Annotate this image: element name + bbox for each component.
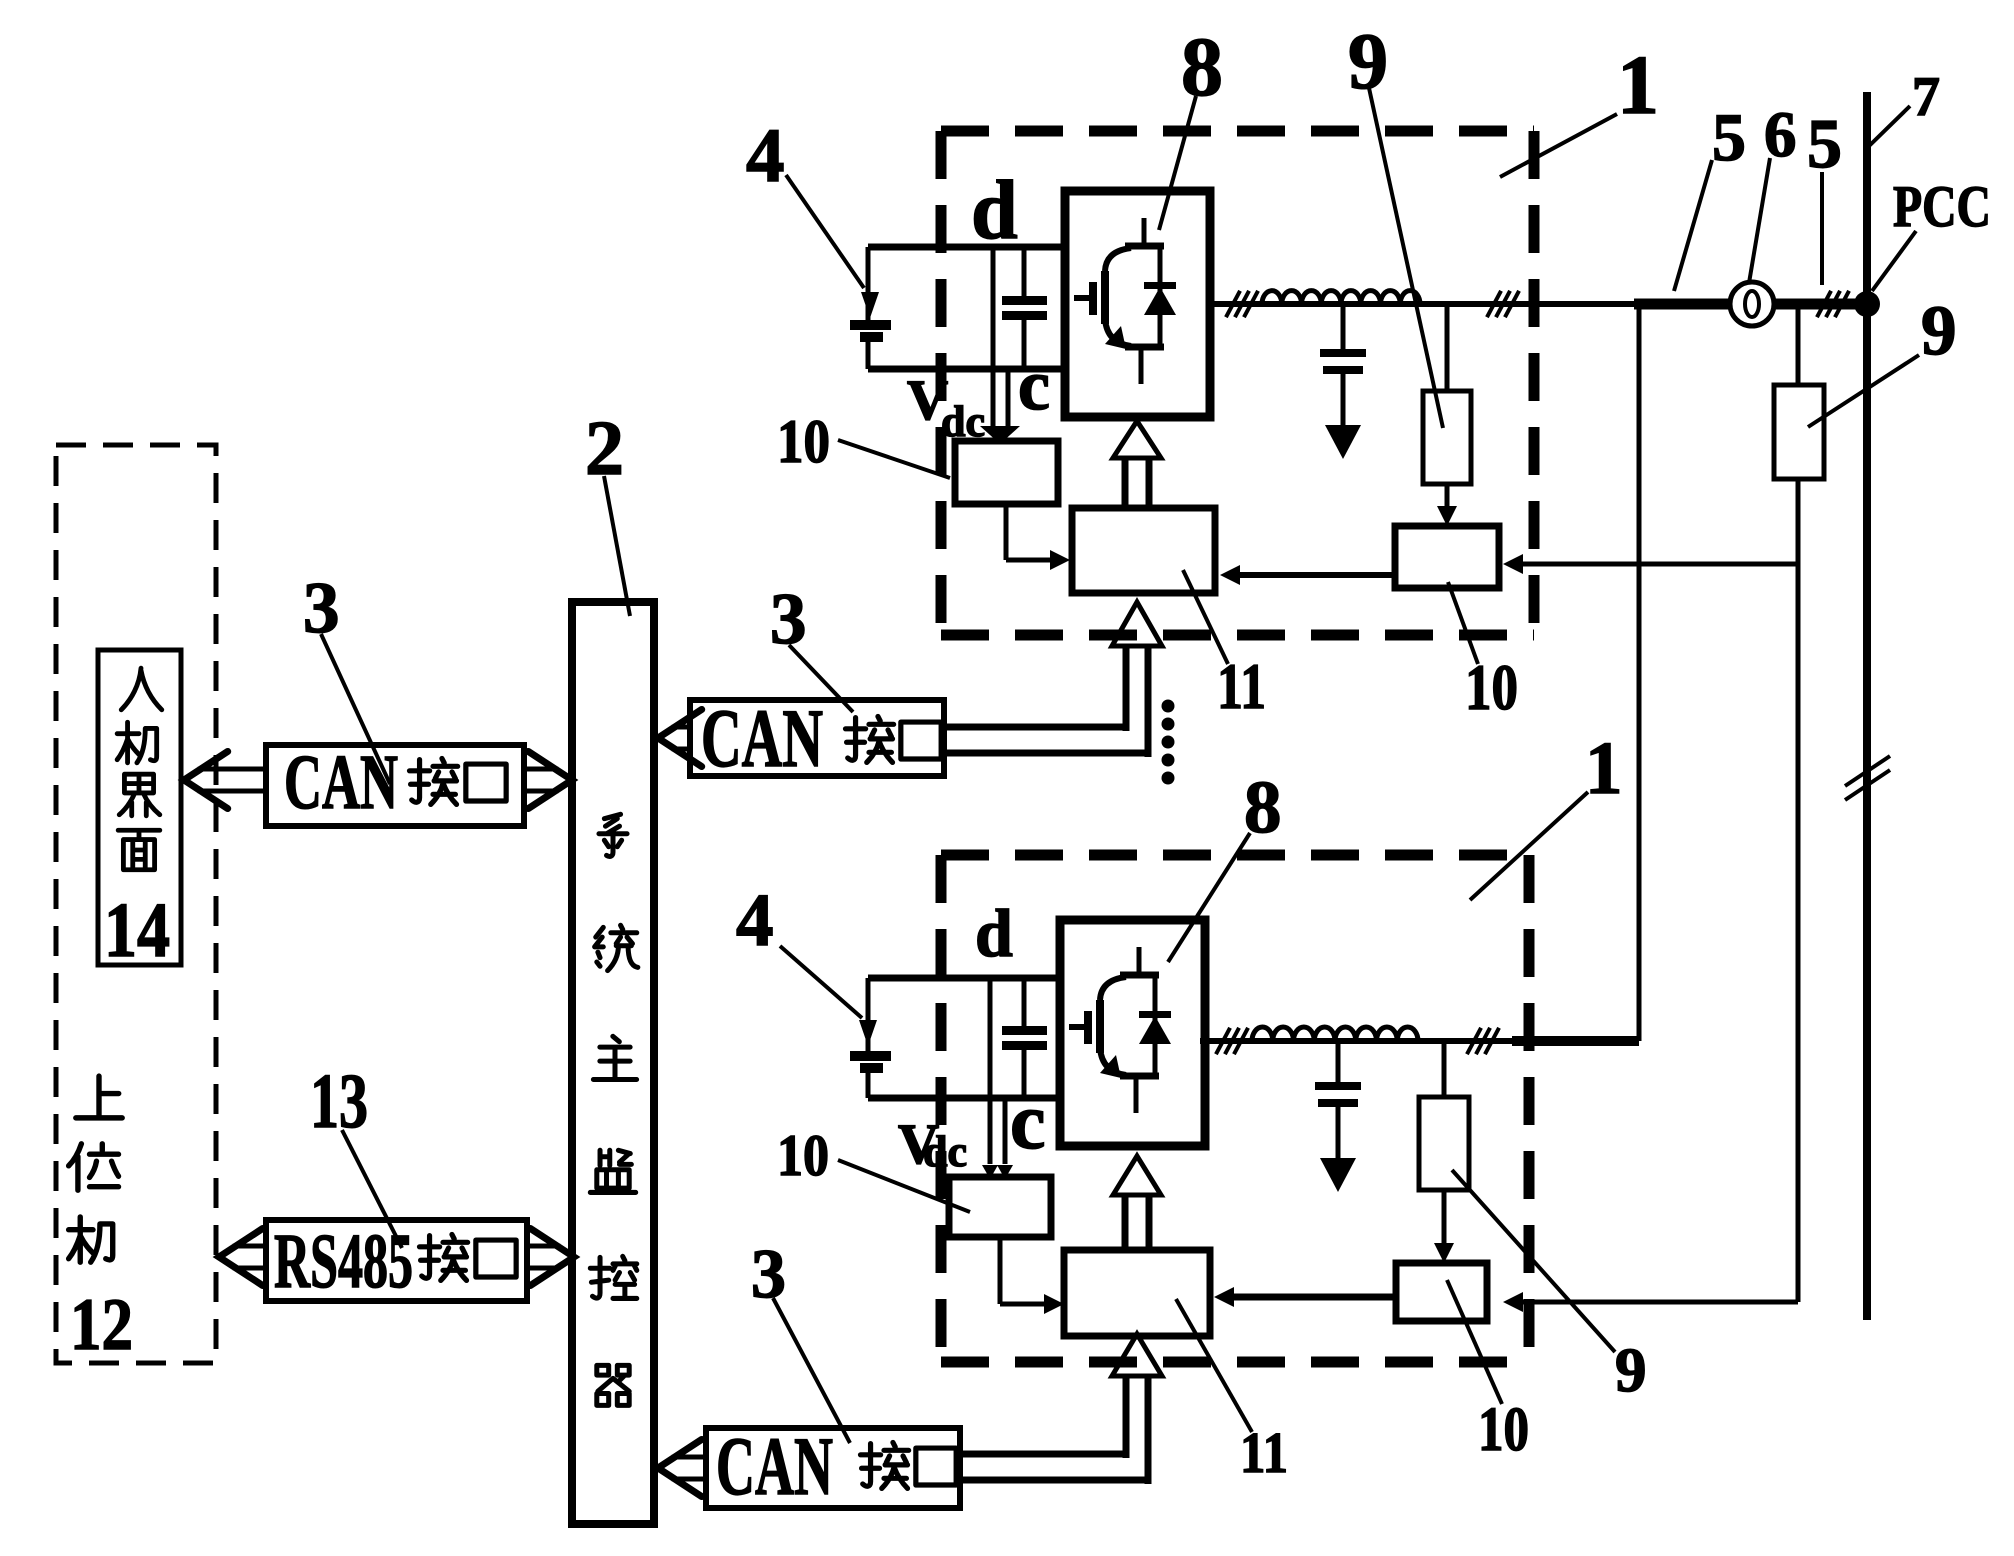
current-loop controller box 11 (lower) xyxy=(1064,1250,1210,1336)
svg-text:10: 10 xyxy=(777,1122,829,1188)
leader 5 (left) xyxy=(1674,160,1712,291)
leader 10 (lower right) xyxy=(1447,1280,1502,1404)
svg-text:d: d xyxy=(971,164,1018,257)
wire arrow upper CAN to controller xyxy=(672,725,690,730)
svg-text:9: 9 xyxy=(1615,1335,1647,1405)
signal box 10 (upper right) xyxy=(1395,526,1499,588)
ac output wire (lower) xyxy=(1200,1038,1516,1044)
ac output heavy segment (lower) xyxy=(1512,1036,1639,1046)
leader 3 (left) xyxy=(321,634,390,784)
system master monitor controller 2 xyxy=(572,602,654,1524)
wire PCC-sense to box10 (upper) xyxy=(1519,562,1798,567)
battery 4 (upper) xyxy=(866,247,871,320)
CAN interface box 3 (left) xyxy=(266,745,524,826)
leader 4 (lower) xyxy=(780,946,862,1018)
wire PCC-sense to box10 (lower) xyxy=(1519,1300,1798,1305)
break hash on bus xyxy=(1845,756,1890,786)
current sensor 9 (upper) xyxy=(1445,304,1450,391)
wire upper CAN to unit1 controller 11 xyxy=(944,724,1126,731)
filter capacitor + ground (upper) xyxy=(1341,304,1346,349)
leader 9 (lower) xyxy=(1452,1170,1615,1352)
battery 4 (lower) loop wires xyxy=(868,975,1060,982)
svg-text:11: 11 xyxy=(1240,1420,1288,1485)
inverter bridge 8 (lower) xyxy=(1060,920,1205,1146)
filter capacitor + ground (lower) xyxy=(1336,1041,1341,1082)
wire box10 to box11 input (upper) xyxy=(1238,572,1395,578)
svg-text:11: 11 xyxy=(1217,651,1266,723)
leader 8 (lower) xyxy=(1168,833,1250,962)
leader 11 (upper) xyxy=(1183,570,1228,664)
break hash near PCC xyxy=(1817,291,1831,317)
leader 1 (upper) xyxy=(1500,114,1617,177)
box 10 Vdc measure (lower) xyxy=(949,1177,1051,1237)
break hash (lower, right) xyxy=(1467,1028,1481,1054)
current-loop controller box 11 (upper) xyxy=(1072,508,1215,593)
inverter unit dashed box 1 (upper) xyxy=(941,126,1534,137)
svg-text:CAN: CAN xyxy=(284,738,398,825)
svg-text:8: 8 xyxy=(1181,21,1223,114)
svg-text:5: 5 xyxy=(1712,99,1746,175)
CAN interface box 3 (upper) xyxy=(690,700,944,776)
Vdc sense wires (lower) xyxy=(988,978,993,1164)
host computer dashed box 12 xyxy=(56,445,216,1363)
leader 8 (upper) xyxy=(1159,96,1196,230)
leader 2 xyxy=(604,476,630,616)
grid bus 7 xyxy=(1863,92,1871,1320)
leader 11 (lower) xyxy=(1176,1299,1252,1432)
break hash (upper, before PCC line) xyxy=(1487,291,1501,317)
HMI text 人机界面 xyxy=(121,668,162,710)
leader 10 (upper left) xyxy=(838,440,950,478)
current sensor 9 (lower) xyxy=(1442,1041,1447,1097)
leader 4 (upper) xyxy=(786,175,864,288)
ellipsis dots (more units) xyxy=(1162,700,1175,713)
svg-text:1: 1 xyxy=(1585,727,1623,810)
Vdc sense wires (upper) xyxy=(991,247,996,428)
svg-text:d: d xyxy=(975,895,1013,971)
break hash (upper, after inverter) xyxy=(1226,291,1240,317)
battery 4 (lower) xyxy=(866,978,871,1051)
signal box 10 (lower right) xyxy=(1396,1263,1487,1321)
svg-text:10: 10 xyxy=(777,408,830,476)
svg-text:13: 13 xyxy=(310,1057,368,1144)
CAN interface box 3 (lower) xyxy=(706,1428,960,1508)
wire box10 to box11 input (lower) xyxy=(1232,1294,1396,1301)
leader 3 (upper) xyxy=(789,645,853,712)
filter inductor (lower) xyxy=(1252,1027,1418,1041)
svg-text:10: 10 xyxy=(1465,652,1518,724)
hollow arrow box11 to inverter (lower) xyxy=(1122,1194,1129,1250)
svg-text:CAN: CAN xyxy=(716,1420,833,1512)
svg-text:PCC: PCC xyxy=(1893,173,1991,239)
current transformer 6 xyxy=(1730,282,1774,326)
leader 9 (right) xyxy=(1808,355,1919,427)
inverter bridge 8 (upper) xyxy=(1065,191,1210,417)
wire lower CAN to unit2 controller 11 xyxy=(960,1451,1126,1458)
controller text 系统主监控器 xyxy=(599,814,627,856)
svg-text:4: 4 xyxy=(746,112,785,198)
PCC sense wire down xyxy=(1796,479,1801,1302)
leader 3 (lower) xyxy=(773,1298,850,1443)
leader 9 (upper) xyxy=(1369,88,1443,428)
PCC voltage sense wire xyxy=(1796,309,1801,385)
svg-text:1: 1 xyxy=(1617,39,1659,132)
wire sensor9 to box10 (lower) xyxy=(1442,1190,1447,1249)
wire unit1 output down to unit2 junction xyxy=(1637,309,1642,1041)
svg-text:c: c xyxy=(1018,345,1050,425)
HMI box 14 xyxy=(98,650,181,965)
wire arrow host to RS485 box xyxy=(233,1244,266,1249)
hollow arrow box11 to inverter (upper) xyxy=(1122,457,1129,508)
ac output wire (upper) xyxy=(1210,301,1640,307)
wire box10 to box11 (upper) xyxy=(1004,504,1009,560)
hollow arrow into box 11 (unit1) xyxy=(1112,602,1162,646)
box 10 Vdc measure (upper) xyxy=(955,441,1058,504)
label 上位机 12 xyxy=(76,1076,122,1118)
svg-text:9: 9 xyxy=(1921,292,1957,370)
svg-text:3: 3 xyxy=(751,1236,786,1313)
leader 10 (upper right) xyxy=(1448,582,1478,664)
leader 1 (lower) xyxy=(1470,792,1588,900)
svg-text:c: c xyxy=(1010,1078,1046,1166)
wire box10 to box11 (lower) xyxy=(998,1237,1003,1304)
svg-text:5: 5 xyxy=(1807,106,1842,183)
wire arrow CAN box to controller 2 xyxy=(524,767,558,772)
wire arrow HMI to CAN box xyxy=(198,767,266,772)
leader 7 xyxy=(1868,106,1910,147)
dc-link capacitor (lower) xyxy=(1022,978,1027,1026)
svg-text:12: 12 xyxy=(70,1284,133,1366)
leader 10 (lower left) xyxy=(838,1160,970,1212)
leader PCC xyxy=(1872,231,1916,291)
PCC node dot xyxy=(1854,291,1880,317)
leader 6 xyxy=(1749,158,1770,283)
filter inductor (upper) xyxy=(1262,291,1420,304)
svg-text:10: 10 xyxy=(1478,1394,1529,1464)
wire arrow lower CAN to controller xyxy=(672,1455,706,1460)
leader 13 xyxy=(342,1130,402,1248)
voltage sensor 9 (right) xyxy=(1774,385,1824,479)
battery 4 (upper) loop wires xyxy=(868,244,1065,251)
svg-text:7: 7 xyxy=(1912,66,1940,128)
thick PCC line xyxy=(1634,299,1867,310)
leader 5 (right) xyxy=(1820,172,1824,285)
inverter unit dashed box 1 (lower) xyxy=(941,850,1529,861)
svg-text:CAN: CAN xyxy=(701,692,823,784)
svg-text:dc: dc xyxy=(923,1127,967,1176)
svg-text:14: 14 xyxy=(104,886,170,973)
break hash (lower, after inverter) xyxy=(1216,1028,1230,1054)
wire sensor9 to box10 (upper) xyxy=(1445,484,1450,512)
RS485 interface box 13 xyxy=(266,1220,527,1301)
hollow arrow into box 11 (unit2) xyxy=(1112,1334,1162,1376)
svg-text:4: 4 xyxy=(736,879,774,962)
wire arrow RS485 box to controller 2 xyxy=(527,1244,560,1249)
dc-link capacitor (upper) xyxy=(1022,247,1027,296)
